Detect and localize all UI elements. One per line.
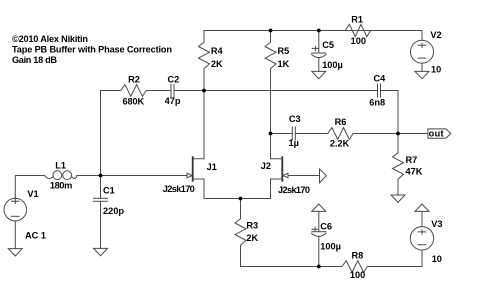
svg-text:180m: 180m [50, 180, 72, 190]
svg-text:R2: R2 [128, 75, 140, 85]
svg-text:J2sk170: J2sk170 [278, 185, 310, 195]
svg-text:100µ: 100µ [320, 241, 341, 251]
svg-text:R6: R6 [335, 117, 347, 127]
svg-text:Tape PB Buffer with Phase Corr: Tape PB Buffer with Phase Correction [12, 44, 172, 54]
svg-text:C4: C4 [374, 74, 387, 84]
svg-text:Gain 18 dB: Gain 18 dB [12, 55, 57, 65]
svg-text:47p: 47p [165, 96, 181, 106]
svg-text:6n8: 6n8 [369, 98, 385, 108]
svg-text:L1: L1 [55, 160, 66, 170]
svg-text:100: 100 [351, 36, 366, 46]
svg-text:R8: R8 [352, 250, 364, 260]
svg-text:out: out [429, 129, 444, 139]
svg-text:680K: 680K [123, 97, 145, 107]
svg-text:C3: C3 [289, 114, 301, 124]
svg-text:V2: V2 [430, 30, 441, 40]
svg-text:2K: 2K [211, 59, 223, 69]
svg-text:J2sk170: J2sk170 [163, 184, 195, 194]
svg-text:C6: C6 [320, 221, 332, 231]
svg-text:1K: 1K [278, 59, 290, 69]
svg-text:V1: V1 [27, 189, 38, 199]
svg-text:R5: R5 [278, 46, 290, 56]
svg-text:220p: 220p [103, 206, 124, 216]
svg-text:10: 10 [432, 254, 442, 264]
svg-text:2.2K: 2.2K [330, 138, 350, 148]
svg-text:2K: 2K [246, 233, 258, 243]
svg-text:R3: R3 [246, 221, 258, 231]
svg-text:J1: J1 [207, 162, 217, 172]
svg-text:1µ: 1µ [289, 138, 299, 148]
svg-text:R4: R4 [211, 46, 224, 56]
svg-text:C2: C2 [168, 75, 180, 85]
svg-text:C5: C5 [322, 40, 334, 50]
svg-text:47K: 47K [406, 167, 423, 177]
svg-text:C1: C1 [103, 185, 115, 195]
svg-text:R7: R7 [406, 155, 418, 165]
svg-text:R1: R1 [351, 14, 363, 24]
svg-text:V3: V3 [431, 219, 442, 229]
svg-text:10: 10 [431, 64, 441, 74]
svg-text:©2010 Alex Nikitin: ©2010 Alex Nikitin [12, 34, 88, 44]
svg-text:AC 1: AC 1 [25, 231, 46, 241]
svg-text:100: 100 [350, 270, 365, 280]
svg-text:100µ: 100µ [322, 60, 343, 70]
svg-text:J2: J2 [261, 161, 271, 171]
